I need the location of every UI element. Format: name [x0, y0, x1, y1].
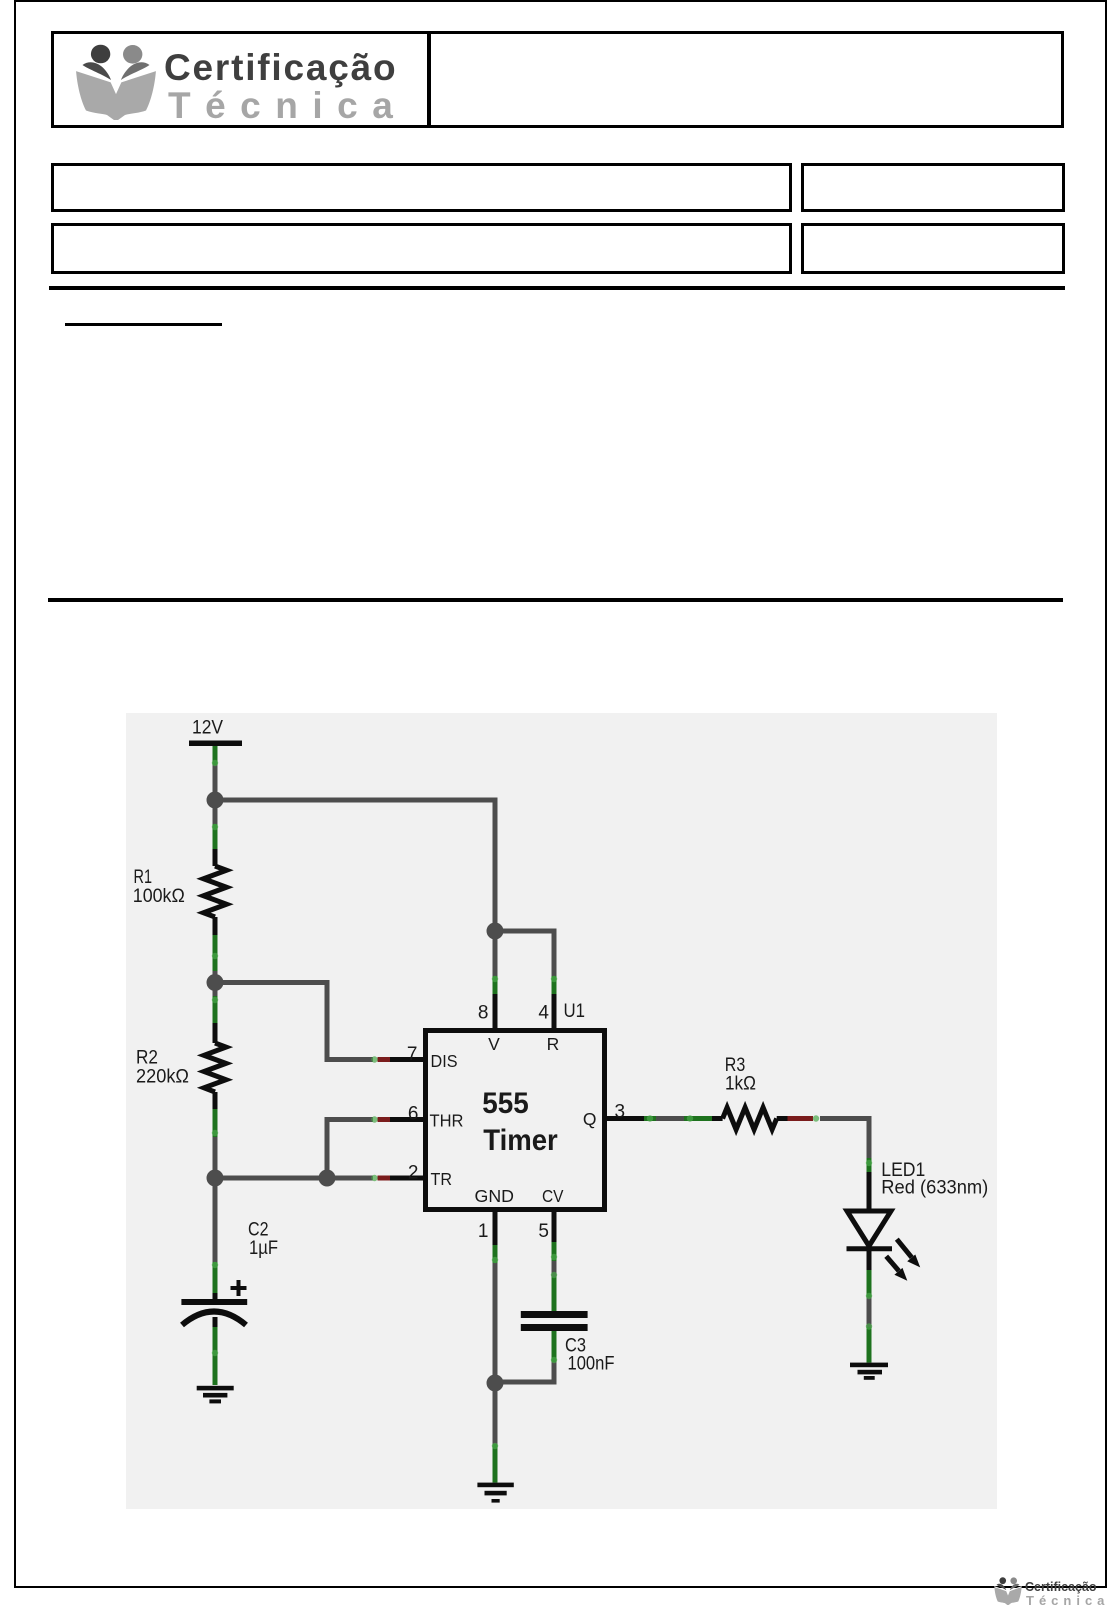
svg-text:220kΩ: 220kΩ	[136, 1066, 189, 1088]
svg-text:100kΩ: 100kΩ	[133, 885, 185, 907]
svg-text:1µF: 1µF	[249, 1237, 278, 1259]
svg-text:1kΩ: 1kΩ	[725, 1073, 756, 1095]
svg-text:4: 4	[538, 1003, 549, 1024]
svg-text:TR: TR	[431, 1169, 453, 1189]
svg-text:CV: CV	[542, 1186, 564, 1206]
svg-text:U1: U1	[564, 1000, 586, 1022]
svg-text:Timer: Timer	[483, 1124, 558, 1157]
svg-text:3: 3	[615, 1102, 626, 1123]
svg-text:100nF: 100nF	[568, 1353, 615, 1375]
svg-text:V: V	[488, 1034, 500, 1054]
svg-text:6: 6	[408, 1104, 419, 1125]
svg-text:2: 2	[408, 1163, 419, 1184]
svg-text:8: 8	[478, 1003, 489, 1024]
svg-text:DIS: DIS	[431, 1051, 458, 1071]
svg-text:5: 5	[538, 1221, 549, 1242]
svg-text:THR: THR	[430, 1111, 464, 1131]
svg-text:R: R	[547, 1034, 560, 1054]
svg-text:12V: 12V	[192, 717, 223, 739]
svg-text:Red (633nm): Red (633nm)	[881, 1177, 988, 1199]
svg-text:GND: GND	[475, 1186, 515, 1206]
svg-text:Q: Q	[583, 1109, 597, 1129]
svg-text:1: 1	[478, 1221, 489, 1242]
svg-text:555: 555	[482, 1087, 529, 1120]
svg-text:7: 7	[407, 1044, 418, 1065]
